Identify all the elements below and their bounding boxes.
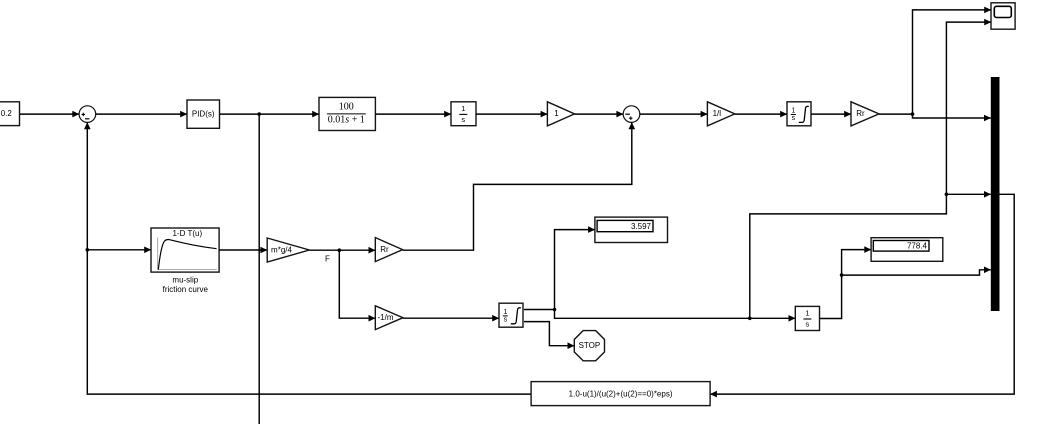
wire node up to display 3.597 xyxy=(555,230,595,310)
svg-text:friction curve: friction curve xyxy=(163,285,209,294)
constant block 0.2 xyxy=(0,102,20,126)
svg-text:1/l: 1/l xyxy=(713,109,722,118)
wire node to mux input3 xyxy=(842,270,991,275)
wire -1/m to limited integrator 2 xyxy=(403,317,499,319)
STOP block octagon xyxy=(574,331,604,361)
node on feedback for lookup branch xyxy=(86,248,90,252)
wire node F to gain Rr mid xyxy=(339,249,375,251)
wire limited integrator to gain Rr xyxy=(811,113,851,115)
wire const 0.2 to sum1 xyxy=(20,113,80,115)
gain block 1 xyxy=(547,102,574,126)
svg-text:Rr: Rr xyxy=(856,109,865,118)
svg-text:PID(s): PID(s) xyxy=(192,109,215,118)
wire gain 1/l to limited integrator xyxy=(735,113,787,115)
transfer fcn block 100/(0.01s+1) xyxy=(319,97,375,130)
limited integrator wheel speed 1/s xyxy=(787,102,811,126)
svg-text:100: 100 xyxy=(339,101,354,112)
svg-text:-1/m: -1/m xyxy=(378,313,394,322)
svg-text:1-D T(u): 1-D T(u) xyxy=(172,229,202,238)
node at PID output xyxy=(257,112,261,116)
lookup table block 1-D T(u) xyxy=(151,228,219,272)
wire integrator to gain 1 xyxy=(476,113,547,115)
wire mux output to fcn block xyxy=(710,194,1014,394)
wire Rr mid to sum2 bottom xyxy=(403,122,632,250)
label mu-slip friction curve xyxy=(163,275,209,294)
node for scope2 branch xyxy=(748,317,752,321)
svg-text:0.01: 0.01 xyxy=(328,115,346,126)
sum junction S1 xyxy=(79,106,96,123)
node at Rr output xyxy=(911,112,915,116)
wire sum1 to PID xyxy=(96,113,187,115)
PID controller block xyxy=(187,100,220,128)
wire integrator2 out to node xyxy=(524,309,555,311)
wire Rr output to mux input1 xyxy=(913,114,991,118)
wire lookup to gain m*g/4 xyxy=(219,249,267,251)
svg-text:+ 1: + 1 xyxy=(349,115,365,126)
scope block xyxy=(991,3,1015,29)
svg-text:1: 1 xyxy=(554,109,559,118)
wire transfer fcn to integrator 1/s xyxy=(375,113,451,115)
wire gain 1 to sum2 xyxy=(575,113,624,115)
display block 778.4 xyxy=(871,238,943,262)
svg-text:s: s xyxy=(806,319,810,328)
svg-text:1.0-u(1)/(u(2)+(u(2)==0)*eps): 1.0-u(1)/(u(2)+(u(2)==0)*eps) xyxy=(569,390,673,399)
integrator block 1/s xyxy=(451,102,476,126)
wire 1/s right up to display 778.4 xyxy=(820,250,872,319)
svg-text:F: F xyxy=(325,255,330,264)
sum junction S2 xyxy=(623,106,640,123)
wire integrator2 saturation port to STOP xyxy=(524,322,574,346)
limited integrator vehicle speed 1/s xyxy=(499,303,523,327)
svg-text:STOP: STOP xyxy=(579,341,601,350)
fcn block relative slip xyxy=(531,382,710,406)
svg-text:m*g/4: m*g/4 xyxy=(271,245,292,254)
wire m*g/4 to node F xyxy=(309,249,339,251)
gain block m*g/4 xyxy=(267,238,309,262)
display block 3.597 xyxy=(595,217,668,242)
wire Rr to scope input1 xyxy=(879,10,991,114)
node on 778.4 wire xyxy=(840,273,844,277)
integrator 1/s right xyxy=(795,306,819,330)
svg-text:Rr: Rr xyxy=(380,245,389,254)
gain block -1/m xyxy=(375,306,403,330)
svg-text:mu-slip: mu-slip xyxy=(172,275,198,284)
gain block Rr top xyxy=(851,102,879,126)
wire node to 1/s block right xyxy=(555,310,796,319)
mux block xyxy=(991,77,1000,311)
svg-text:3.597: 3.597 xyxy=(631,222,652,231)
gain block Rr mid xyxy=(375,238,402,262)
wire to mux input2 xyxy=(946,193,990,195)
svg-text:778.4: 778.4 xyxy=(907,242,928,251)
wire vehicle speed to scope input2 xyxy=(750,22,991,318)
wire node F down to gain -1/m xyxy=(339,250,375,318)
svg-text:1: 1 xyxy=(461,104,465,113)
svg-text:0.2: 0.2 xyxy=(1,109,13,118)
wire feedback from fcn to sum1 and lookup xyxy=(87,122,531,394)
node on scope2 wire xyxy=(945,193,949,197)
wire PID output down off bottom xyxy=(258,114,260,424)
node F xyxy=(338,248,342,252)
wire PID to transfer fcn xyxy=(220,113,320,115)
wire to lookup table input xyxy=(87,249,151,251)
svg-text:s: s xyxy=(461,115,465,124)
gain block 1/l xyxy=(707,102,734,126)
svg-text:1: 1 xyxy=(805,308,809,317)
node at integrator2 output xyxy=(553,308,557,312)
wire sum2 to gain 1/l xyxy=(640,113,708,115)
